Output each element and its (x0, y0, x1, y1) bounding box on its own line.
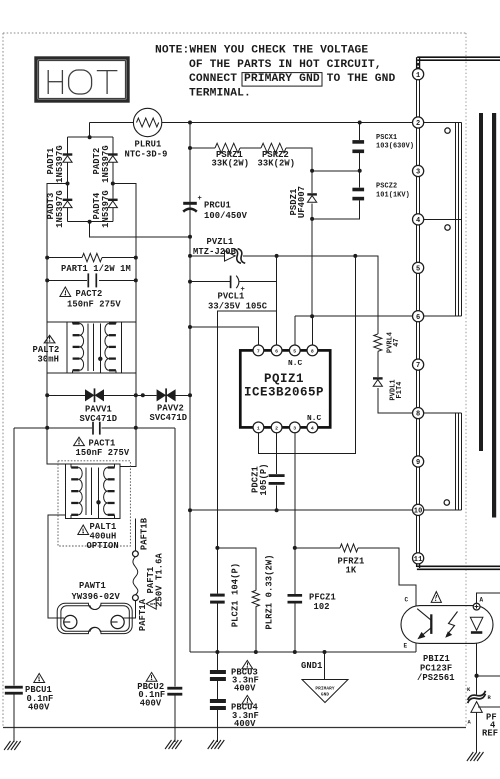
wire: PVRL4 to PVDL1 (377, 352, 379, 378)
wire: between PSRZ1 and PSRZ2 (240, 147, 261, 149)
svg-text:PSCX1: PSCX1 (376, 134, 397, 142)
IC PQIZ1 ICE3B2065P (240, 345, 330, 433)
capacitor PACT2 (88, 273, 96, 287)
wire: main center rail x=190 (189, 123, 191, 653)
wire: top AC line left of PLRU1 (90, 122, 134, 124)
connector bus to transformer: bottom thick link (416, 564, 418, 568)
node (358, 169, 362, 173)
wire: PFCZ1 bottom to bus (294, 603, 296, 652)
svg-text:PACT2: PACT2 (76, 289, 103, 299)
resistor PSRZ2 (261, 143, 286, 153)
svg-text:400V: 400V (28, 703, 50, 713)
diode PADT4 (108, 199, 118, 208)
connector pin 9 (413, 456, 424, 467)
svg-text:PAVV1: PAVV1 (85, 405, 112, 415)
svg-text:101(1KV): 101(1KV) (376, 192, 410, 200)
svg-text:10: 10 (414, 508, 423, 516)
capacitor PBCU3 (210, 670, 226, 681)
svg-text:NTC-3D-9: NTC-3D-9 (125, 150, 168, 160)
winding link pins 4-6 (424, 219, 462, 316)
svg-text:1: 1 (257, 426, 260, 432)
svg-text:PALT2: PALT2 (33, 345, 60, 355)
capacitor PACT1 (93, 422, 100, 435)
node (188, 393, 192, 397)
wire: pin C row to connector pin 6 (295, 315, 413, 317)
svg-text:102: 102 (314, 602, 330, 612)
wire: bus up to optocoupler emitter (415, 643, 417, 652)
node (45, 393, 49, 397)
capacitor PRCU1 (electrolytic on rail) (183, 195, 202, 212)
svg-text:PLRZ1 0.33(2W): PLRZ1 0.33(2W) (264, 554, 274, 629)
wire: between PBCU3 and PBCU4 (216, 681, 218, 699)
node (188, 280, 192, 284)
svg-text:11: 11 (414, 556, 423, 564)
node (88, 220, 92, 224)
svg-text:PLRU1: PLRU1 (135, 140, 162, 150)
node (215, 546, 219, 550)
wire: PSCZ2 bottom to junction (312, 200, 360, 219)
connector pin 3 (413, 165, 424, 176)
node (134, 256, 138, 260)
wire: PLRZ1 bottom to bus (255, 607, 257, 652)
node: feedback junction (475, 674, 479, 678)
svg-text:8: 8 (416, 411, 420, 419)
svg-text:47: 47 (393, 338, 401, 346)
svg-text:PC123F: PC123F (420, 664, 452, 674)
node (45, 256, 49, 260)
wire: PFRZ1 row left (295, 547, 340, 549)
svg-text:TERMINAL.: TERMINAL. (189, 87, 251, 99)
warning symbol PBCU1 (34, 674, 45, 683)
svg-text:100/450V: 100/450V (204, 211, 248, 221)
hot area dashed border right (465, 33, 467, 728)
zener diode PFZD1 (voltage reference) (467, 687, 492, 726)
fuse PAFT1 (133, 551, 139, 601)
svg-text:1: 1 (416, 72, 420, 80)
varistor PAVV1 (85, 388, 104, 402)
svg-text:1K: 1K (346, 566, 357, 576)
svg-text:PLCZ1 104(P): PLCZ1 104(P) (230, 563, 240, 628)
node (358, 121, 362, 125)
resistor PSRZ1 (215, 143, 240, 153)
svg-text:4: 4 (311, 426, 314, 432)
capacitor PSCX1 (352, 140, 364, 153)
transformer PALT2 (47, 322, 136, 373)
warning symbol PBCU4 (242, 695, 253, 704)
wire: PBCU1 drop line (13, 428, 15, 686)
svg-text:PSCZ2: PSCZ2 (376, 183, 397, 191)
wire: PART1 row (47, 257, 82, 259)
node (188, 254, 192, 258)
connector pin 10 (413, 504, 424, 515)
svg-text:9: 9 (416, 459, 420, 467)
wire: PVCL1 row left (190, 281, 230, 283)
svg-text:5: 5 (416, 265, 420, 273)
node (134, 278, 138, 282)
svg-text:/PS2561: /PS2561 (417, 673, 455, 683)
hot area dashed border left (2, 33, 4, 728)
optocoupler PBIZ1 (401, 597, 493, 650)
svg-text:YW396-02V: YW396-02V (72, 592, 121, 602)
wire: bridge bottom rail (68, 221, 113, 223)
diode PSDZ1 (307, 193, 317, 202)
warning symbol PACT1 (74, 437, 85, 445)
node (188, 146, 192, 150)
node (188, 235, 192, 239)
svg-text:PRCU1: PRCU1 (204, 201, 231, 211)
svg-text:GND1: GND1 (301, 661, 323, 671)
svg-text:8: 8 (311, 349, 314, 355)
transformer primary double line (416, 74, 418, 558)
svg-text:UF4007: UF4007 (297, 186, 307, 218)
capacitor PBCU1 (5, 686, 23, 695)
resistor PLRZ1 (252, 590, 259, 606)
svg-text:5: 5 (293, 349, 296, 355)
wire: PSRZ2 to PSDZ1 branch corner (286, 148, 312, 193)
connector pin 1 (413, 69, 424, 80)
svg-text:30mH: 30mH (38, 355, 60, 365)
capacitor PBCU2 (167, 687, 182, 696)
svg-text:OF THE PARTS IN HOT CIRCUIT,: OF THE PARTS IN HOT CIRCUIT, (189, 59, 382, 71)
node (134, 426, 138, 430)
node (66, 182, 70, 186)
wire: PALT1 bottom right to fuse (134, 518, 136, 551)
wire: PLCZ1 top branch (217, 548, 255, 591)
hot area dashed border top (3, 32, 466, 34)
svg-text:400V: 400V (234, 684, 256, 694)
wire: between PSCX1 and PSCZ2 (359, 153, 361, 188)
diode PVDL1 (373, 377, 383, 386)
ground at PBCU1 (4, 741, 21, 750)
wire: fuse to plug right pin (124, 601, 136, 619)
warning symbol PBCU2 (146, 672, 157, 681)
wire: PSRZ row left segment (190, 147, 215, 149)
resistor PVRL4 (374, 334, 382, 351)
svg-text:1N5397G: 1N5397G (55, 190, 65, 228)
connector pin 5 (413, 262, 424, 273)
transformer core bar 1 (479, 113, 483, 451)
wire: bridge left mid node to left rail (47, 184, 67, 464)
connector pin 6 (413, 311, 424, 322)
wire: PALT1 bottom left to plug left pin (48, 515, 66, 618)
node (188, 508, 192, 512)
svg-text:A: A (480, 597, 484, 604)
connector pin 2 (413, 117, 424, 128)
svg-text:CONNECT PRIMARY GND TO THE GND: CONNECT PRIMARY GND TO THE GND (189, 73, 395, 85)
node (310, 169, 314, 173)
svg-text:2: 2 (416, 120, 420, 128)
wire: IC pin c down to PFRZ1 node (294, 433, 296, 594)
svg-text:1N5397G: 1N5397G (55, 145, 65, 183)
svg-text:PAFT1B: PAFT1B (139, 517, 149, 550)
winding link pins 2-4 (424, 123, 462, 220)
svg-text:7: 7 (416, 362, 420, 370)
node (254, 650, 258, 654)
svg-text:PAWT1: PAWT1 (79, 581, 106, 591)
svg-text:PVZL1: PVZL1 (207, 237, 234, 247)
wire: PVDL1 to connector pin 8 (378, 388, 413, 413)
box around PRIMARY GND (242, 73, 322, 87)
diode PADT2 (108, 153, 118, 162)
wire: PBCU4 to ground (216, 710, 218, 742)
wire: IC top pin D stub (311, 316, 313, 345)
wire: VCC node vertical down to pin-B row (276, 256, 278, 311)
node (88, 135, 92, 139)
svg-text:3: 3 (416, 169, 420, 177)
node (134, 393, 138, 397)
transformer PALT1 (58, 461, 130, 546)
wire: PAVV1 row (47, 394, 85, 396)
capacitor PLCZ1 (210, 594, 225, 604)
svg-text:400V: 400V (140, 699, 162, 709)
svg-text:6: 6 (416, 314, 420, 322)
svg-text:PACT1: PACT1 (89, 439, 116, 449)
wire: top AC line from PLRU1 to connector pin 2 (162, 122, 413, 124)
wire: VCC bus y=510 to connector pin 10 (190, 509, 413, 511)
svg-text:PBIZ1: PBIZ1 (423, 654, 450, 664)
svg-text:33/35V 105C: 33/35V 105C (208, 302, 268, 312)
node (45, 278, 49, 282)
svg-text:150nF 275V: 150nF 275V (67, 300, 121, 310)
node (215, 650, 219, 654)
warning symbol PACT2 (60, 287, 71, 297)
winding link pins 8-10 (424, 413, 462, 510)
svg-text:SVC471D: SVC471D (80, 414, 118, 424)
svg-text:SVC471D: SVC471D (150, 413, 188, 423)
svg-text:OPTION: OPTION (87, 541, 119, 551)
wire: IC top pin C stub (294, 316, 296, 345)
wire: PACT2 row (47, 279, 87, 281)
svg-text:PAVV2: PAVV2 (157, 404, 184, 414)
capacitor PFCZ1 (288, 594, 303, 604)
capacitor PDCZ1 (269, 474, 285, 485)
node (310, 217, 314, 221)
node (293, 546, 297, 550)
warning symbol PBCU3 (242, 660, 253, 668)
ground at PBCU2 (165, 740, 182, 749)
capacitor PBCU4 (210, 699, 226, 710)
svg-text:PFCZ1: PFCZ1 (309, 593, 336, 603)
svg-text:N.C: N.C (288, 360, 303, 368)
wire: bridge left branch segments (67, 137, 69, 153)
svg-text:N.C: N.C (307, 415, 322, 423)
svg-text:6: 6 (275, 349, 278, 355)
svg-text:33K(2W): 33K(2W) (212, 159, 250, 169)
svg-text:PRIMARY: PRIMARY (315, 687, 334, 692)
diode PADT1 (63, 153, 73, 162)
resistor PFRZ1 (340, 544, 358, 552)
svg-text:400uH: 400uH (90, 532, 117, 542)
svg-text:PALT1: PALT1 (90, 522, 117, 532)
node (475, 674, 479, 678)
wire: PACT1 row (14, 427, 92, 429)
svg-text:105(P): 105(P) (259, 463, 269, 495)
varistor PAVV2 (157, 388, 176, 402)
svg-text:1N5397G: 1N5397G (101, 145, 111, 183)
svg-text:GND: GND (321, 693, 329, 698)
wire: bridge right mid node to right rail (113, 184, 136, 467)
svg-text:4: 4 (416, 217, 420, 225)
connector pin 8 (413, 408, 424, 419)
svg-text:33K(2W): 33K(2W) (258, 159, 296, 169)
connector bus to transformer: top thick link (417, 56, 500, 58)
node (188, 325, 192, 329)
ground at shunt zener (467, 752, 484, 761)
wire: feedback node to secondary (477, 675, 500, 677)
svg-text:PART1 1/2W 1M: PART1 1/2W 1M (61, 264, 131, 274)
wire: PLCZ1 segments (216, 548, 218, 594)
wire: IC wrap wire from VCC node down and around to pin1 (258, 256, 355, 454)
primary GND symbol GND1 (302, 680, 348, 703)
node (141, 393, 145, 397)
svg-text:F1T4: F1T4 (396, 382, 404, 399)
wire: bridge bottom node to center rail (90, 222, 190, 237)
AC inlet PAWT1 (57, 603, 132, 633)
wire: IC top pin A up and left to rail (190, 327, 258, 345)
svg-text:2: 2 (275, 426, 278, 432)
ground at PBCU4 (208, 740, 225, 749)
node (275, 254, 279, 258)
diode PADT3 (63, 199, 73, 208)
svg-text:PQIZ1: PQIZ1 (264, 372, 304, 386)
svg-text:C: C (405, 597, 409, 604)
wire: bridge top node to top rail (89, 123, 91, 138)
warning symbol PAFT1A (146, 598, 156, 609)
wire: zener to ground (476, 712, 478, 752)
capacitor PVCL1 (electrolytic) (231, 276, 245, 294)
wire: IC pin b down through PDCZ1 (276, 433, 278, 474)
wire: PSCX1 branch from top line (359, 123, 361, 141)
thermistor PLRU1 (133, 108, 161, 136)
note text (155, 45, 395, 100)
wire: opto anode to secondary (477, 593, 500, 606)
node (275, 508, 279, 512)
svg-text:400V: 400V (234, 719, 256, 729)
svg-text:150nF 275V: 150nF 275V (76, 448, 130, 458)
svg-text:REF: REF (482, 729, 498, 739)
node: stub dots above pin 1 (417, 63, 420, 66)
svg-text:PVCL1: PVCL1 (218, 292, 245, 302)
wire: PSDZ1 cathode-row link to PSCX1 branch (312, 170, 360, 172)
capacitor PSCZ2 (352, 188, 364, 201)
svg-text:103(630V): 103(630V) (376, 143, 414, 151)
wire: zener anode node to secondary (478, 706, 500, 708)
svg-text:ICE3B2065P: ICE3B2065P (244, 386, 324, 400)
wire: IC top pin B stub (276, 311, 278, 345)
wire: PFRZ1 to optocoupler collector (358, 548, 416, 606)
connector pin 4 (413, 214, 424, 225)
resistor PART1 (82, 253, 102, 261)
wire: bottom ground bus (190, 651, 416, 653)
wire: GND1 stub (324, 652, 326, 679)
connector pin 11 (413, 553, 424, 564)
wire: pin-B feed horizontal (217, 311, 276, 548)
wire: PAVV2 to center rail (175, 394, 190, 396)
HOT label box (36, 58, 128, 101)
hot area bottom border (3, 727, 466, 729)
svg-text:E: E (404, 643, 408, 650)
node (323, 650, 327, 654)
warning symbol PALT1 (78, 525, 89, 535)
wire: opto LED cathode down (476, 643, 478, 694)
svg-text:NOTE:WHEN YOU CHECK THE VOLTAG: NOTE:WHEN YOU CHECK THE VOLTAGE (155, 45, 368, 57)
node (188, 121, 192, 125)
wire: zener PVZL1 row right to PVRL4 branch (243, 256, 378, 334)
svg-text:7: 7 (257, 349, 260, 355)
node (45, 426, 49, 430)
wire: bridge top rail (68, 136, 113, 138)
node (293, 650, 297, 654)
wire: PSDZ1 anode down to pin-D node (311, 204, 313, 317)
wire: PVCL1 row right (240, 281, 277, 283)
svg-text:+: + (198, 195, 202, 203)
node (310, 314, 314, 318)
node (111, 182, 115, 186)
svg-text:MTZ-J20B: MTZ-J20B (193, 247, 237, 257)
svg-text:3: 3 (293, 426, 296, 432)
node (353, 254, 357, 258)
wire: bridge right branch segments (112, 137, 114, 153)
zener PVZL1 (225, 249, 246, 264)
svg-text:1N5397G: 1N5397G (101, 190, 111, 228)
wire: zener PVZL1 row left (190, 255, 225, 257)
warning triangle above optocoupler (431, 592, 441, 603)
warning symbol PALT2 (44, 335, 55, 343)
wire: PBCU2 drop line (174, 428, 176, 687)
connector pin 7 (413, 359, 424, 370)
transformer core bar 2 (492, 113, 496, 518)
